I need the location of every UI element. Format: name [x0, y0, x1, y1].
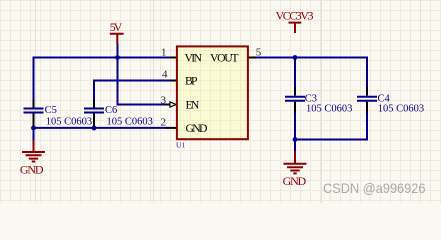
- svg-text:C5: C5: [45, 105, 57, 116]
- svg-text:5V: 5V: [110, 20, 123, 34]
- svg-text:VIN: VIN: [185, 51, 203, 64]
- svg-text:EN: EN: [186, 98, 200, 111]
- svg-text:105 C0603: 105 C0603: [378, 104, 424, 115]
- svg-text:U1: U1: [176, 141, 186, 150]
- svg-text:GND: GND: [186, 122, 208, 135]
- svg-text:3: 3: [161, 94, 167, 106]
- svg-text:105 C0603: 105 C0603: [107, 117, 153, 128]
- svg-text:CSDN @a996926: CSDN @a996926: [323, 180, 426, 196]
- svg-text:GND: GND: [283, 174, 307, 188]
- svg-text:2: 2: [161, 117, 167, 129]
- svg-text:GND: GND: [20, 162, 44, 176]
- svg-text:C6: C6: [105, 105, 117, 116]
- svg-text:VOUT: VOUT: [210, 51, 239, 64]
- svg-text:105 C0603: 105 C0603: [306, 104, 352, 115]
- svg-text:BP: BP: [185, 74, 198, 87]
- svg-text:1: 1: [161, 46, 167, 58]
- svg-text:VCC3V3: VCC3V3: [276, 9, 314, 23]
- svg-text:4: 4: [162, 69, 168, 81]
- svg-text:105 C0603: 105 C0603: [46, 117, 92, 128]
- svg-text:5: 5: [256, 46, 262, 58]
